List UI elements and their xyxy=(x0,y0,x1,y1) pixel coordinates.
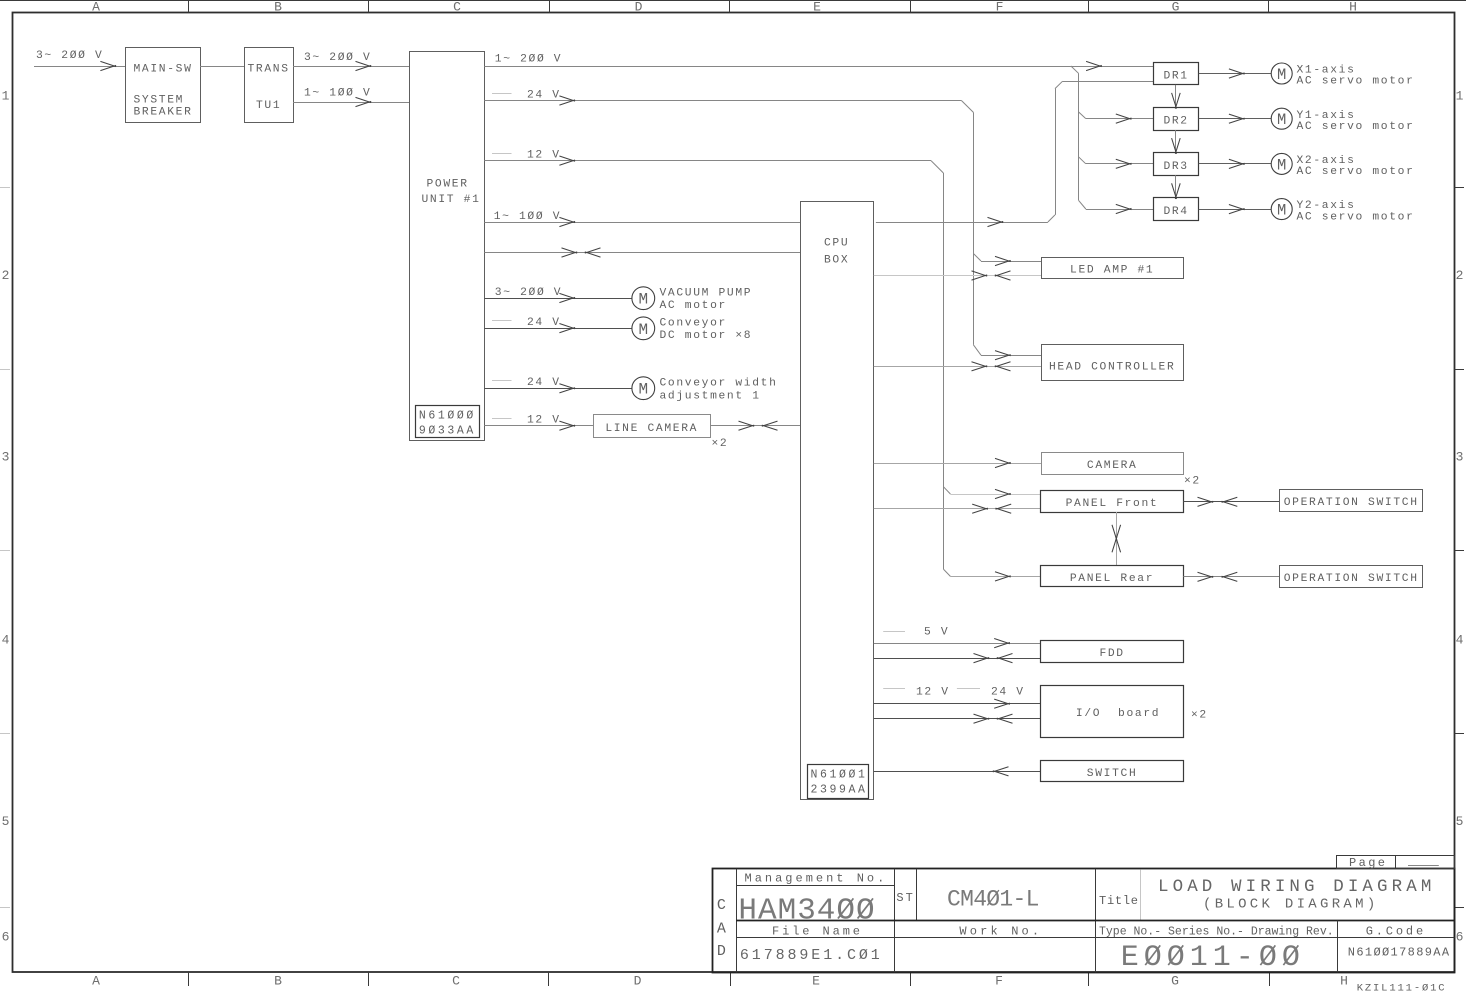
wire CPU to HEAD CONTROLLER bidirectional xyxy=(874,366,1041,368)
block PANEL Rear xyxy=(1041,566,1184,587)
svg-text:B: B xyxy=(274,0,282,15)
wire 1~200V to DR1 xyxy=(484,66,1153,68)
svg-text:PANEL Rear: PANEL Rear xyxy=(1070,573,1154,585)
svg-text:OPERATION SWITCH: OPERATION SWITCH xyxy=(1284,573,1419,585)
wire branch to DR4 xyxy=(1079,200,1086,209)
block SWITCH xyxy=(1041,761,1184,782)
svg-text:Management No.: Management No. xyxy=(745,871,888,885)
title block management header line xyxy=(736,885,895,887)
wire 100V trunk diagonal high xyxy=(1055,81,1063,88)
svg-text:6: 6 xyxy=(2,930,10,945)
label box N61001 2399AA xyxy=(808,765,869,799)
wire 24V to conveyor DC motor xyxy=(484,328,632,330)
title block ST cell xyxy=(894,869,896,973)
svg-text:CAMERA: CAMERA xyxy=(1087,460,1138,472)
motor M conveyor width xyxy=(632,377,655,400)
wire 12V trunk diagonal xyxy=(931,161,943,173)
svg-text:H: H xyxy=(1340,974,1348,989)
sheet top edge line xyxy=(0,0,1466,2)
row ticks right xyxy=(1455,187,1465,189)
svg-text:D: D xyxy=(635,0,643,15)
svg-text:×2: ×2 xyxy=(1184,476,1201,488)
motor M vacuum pump xyxy=(632,287,655,310)
svg-text:12 V: 12 V xyxy=(527,150,561,162)
wire branch to LED AMP top xyxy=(973,254,981,262)
title block CAD cell divider xyxy=(736,869,738,973)
svg-text:A: A xyxy=(717,921,726,938)
svg-text:617889E1.CØ1: 617889E1.CØ1 xyxy=(740,947,883,964)
wire DR3 chain down xyxy=(1175,175,1177,198)
svg-text:SYSTEM: SYSTEM xyxy=(134,95,185,107)
wire PANEL Front to OPERATION SWITCH bidirectional xyxy=(1183,501,1279,503)
wire 24V to trunk xyxy=(484,100,961,102)
column ticks top xyxy=(188,1,190,13)
svg-text:PANEL Front: PANEL Front xyxy=(1066,498,1159,510)
svg-text:4: 4 xyxy=(2,633,10,648)
wire 3~200V mains input xyxy=(34,66,125,68)
svg-text:E: E xyxy=(813,0,821,15)
wire branch to DR3 xyxy=(1079,157,1086,164)
svg-text:HAM34ØØ: HAM34ØØ xyxy=(738,894,875,929)
wire 1~100V to CPU BOX xyxy=(484,222,800,224)
wire 12V to LINE CAMERA xyxy=(484,425,593,427)
svg-text:MAIN-SW: MAIN-SW xyxy=(134,64,193,76)
motor M X2-axis AC servo xyxy=(1271,153,1292,174)
svg-text:B: B xyxy=(274,974,282,989)
svg-text:24 V: 24 V xyxy=(527,377,561,389)
wire PANEL Front to PANEL Rear bidirectional xyxy=(1116,512,1118,566)
svg-text:Work No.: Work No. xyxy=(959,924,1042,938)
svg-text:M: M xyxy=(1277,66,1286,84)
svg-text:×2: ×2 xyxy=(712,438,729,450)
svg-text:E: E xyxy=(812,974,820,989)
svg-text:M: M xyxy=(1277,202,1286,220)
svg-text:C: C xyxy=(717,897,726,914)
motor M X1-axis AC servo xyxy=(1271,63,1292,84)
wire MAIN-SW to TRANS xyxy=(200,66,244,68)
block PANEL Front xyxy=(1041,491,1184,513)
svg-text:N61ØØ1: N61ØØ1 xyxy=(811,769,868,782)
svg-text:M: M xyxy=(638,291,648,309)
svg-text:UNIT #1: UNIT #1 xyxy=(422,194,481,206)
svg-text:Type No.- Series No.- Drawing: Type No.- Series No.- Drawing Rev. xyxy=(1099,925,1334,938)
svg-text:AC servo motor: AC servo motor xyxy=(1297,121,1415,133)
svg-text:3~ 2ØØ V: 3~ 2ØØ V xyxy=(304,52,371,64)
wire 100V into DR1 xyxy=(1063,81,1154,83)
svg-text:VACUUM PUMP: VACUUM PUMP xyxy=(660,288,753,300)
block HEAD CONTROLLER xyxy=(1042,345,1184,381)
wire DR3 to motor xyxy=(1199,163,1272,165)
svg-text:9Ø33AA: 9Ø33AA xyxy=(419,424,476,437)
svg-text:5: 5 xyxy=(2,814,10,829)
block TRANS TU1 xyxy=(245,48,294,123)
title block row line xyxy=(736,920,1454,922)
svg-text:F: F xyxy=(995,974,1003,989)
svg-text:1: 1 xyxy=(1456,89,1464,104)
svg-text:5: 5 xyxy=(1456,814,1464,829)
wire 12V trunk vertical xyxy=(943,173,945,569)
column ticks bottom xyxy=(188,972,190,986)
block MAIN-SW SYSTEM BREAKER xyxy=(126,48,201,123)
wire POWER UNIT to CPU BOX bidirectional xyxy=(484,252,800,254)
block OPERATION SWITCH lower xyxy=(1280,566,1423,588)
svg-text:M: M xyxy=(638,381,648,399)
svg-text:×2: ×2 xyxy=(1191,709,1208,721)
label 12V 24V dashes xyxy=(883,688,905,690)
svg-text:24 V: 24 V xyxy=(527,317,561,329)
svg-text:FDD: FDD xyxy=(1099,648,1124,660)
wire 24V trunk diagonal xyxy=(961,101,973,113)
wire DR2 chain down xyxy=(1175,130,1177,153)
label 12V dash xyxy=(492,153,512,155)
motor M Y1-axis AC servo xyxy=(1271,108,1292,129)
svg-text:M: M xyxy=(638,321,648,339)
svg-text:G: G xyxy=(1171,974,1179,989)
wire CPU to LED AMP bidirectional xyxy=(874,275,1041,277)
wire CPU to FDD bidirectional xyxy=(874,658,1041,660)
svg-text:POWER: POWER xyxy=(427,179,469,191)
svg-text:HEAD CONTROLLER: HEAD CONTROLLER xyxy=(1049,361,1175,373)
block FDD xyxy=(1041,641,1184,663)
svg-text:BREAKER: BREAKER xyxy=(134,107,193,119)
wire DR trunk vertical xyxy=(1078,73,1080,200)
block POWER UNIT #1 xyxy=(410,52,485,441)
block CPU BOX xyxy=(801,202,874,800)
row ticks left xyxy=(0,187,10,189)
svg-text:LED AMP #1: LED AMP #1 xyxy=(1070,265,1154,277)
wire branch to PANEL Rear xyxy=(943,569,950,576)
wire PANEL Rear to OPERATION SWITCH bidirectional xyxy=(1183,576,1279,578)
svg-text:C: C xyxy=(453,0,461,15)
title block outer frame xyxy=(713,869,1455,973)
svg-text:N61ØØØ: N61ØØØ xyxy=(419,409,476,422)
title block title column divider xyxy=(1095,869,1097,973)
block DR1 xyxy=(1154,63,1199,85)
svg-text:M: M xyxy=(1277,156,1286,174)
svg-text:OPERATION SWITCH: OPERATION SWITCH xyxy=(1284,497,1419,509)
svg-text:DR1: DR1 xyxy=(1163,70,1188,82)
svg-text:D: D xyxy=(634,974,642,989)
block CAMERA xyxy=(1042,453,1184,475)
svg-text:LINE CAMERA: LINE CAMERA xyxy=(605,423,698,435)
svg-text:1: 1 xyxy=(2,89,10,104)
wire DR2 to motor xyxy=(1199,118,1272,120)
svg-text:G.Code: G.Code xyxy=(1366,924,1426,938)
svg-text:TU1: TU1 xyxy=(256,100,281,112)
svg-text:12 V: 12 V xyxy=(916,687,950,699)
wire branch diagonal to DR trunk xyxy=(1071,66,1079,73)
svg-text:CM4Ø1-L: CM4Ø1-L xyxy=(947,887,1039,913)
svg-text:4: 4 xyxy=(1456,633,1464,648)
svg-text:M: M xyxy=(1277,111,1286,129)
svg-text:(BLOCK DIAGRAM): (BLOCK DIAGRAM) xyxy=(1203,896,1379,912)
svg-text:I/O board: I/O board xyxy=(1076,708,1160,720)
label 24V dash xyxy=(492,93,512,95)
wire LINE CAMERA to CPU bidirectional xyxy=(710,425,800,427)
svg-text:AC motor: AC motor xyxy=(660,300,727,312)
wire 24V to conveyor width motor xyxy=(484,388,632,390)
svg-text:N61ØØ17889AA: N61ØØ17889AA xyxy=(1348,945,1451,959)
wire TRANS to POWER UNIT 1~100V xyxy=(293,102,410,104)
svg-text:3: 3 xyxy=(1456,450,1464,465)
svg-text:6: 6 xyxy=(1456,930,1464,945)
svg-text:EØØ11-ØØ: EØØ11-ØØ xyxy=(1121,941,1305,975)
svg-text:DC motor ×8: DC motor ×8 xyxy=(660,330,753,342)
title block page box xyxy=(1337,856,1455,869)
svg-text:AC servo motor: AC servo motor xyxy=(1297,166,1415,178)
svg-text:G: G xyxy=(1172,0,1180,15)
svg-text:ST: ST xyxy=(896,891,914,905)
wire branch to DR2 xyxy=(1079,112,1086,119)
block DR2 xyxy=(1154,108,1199,131)
block LED AMP #1 xyxy=(1042,258,1184,279)
wire CPU to I/O board supply xyxy=(874,703,1041,705)
svg-text:Title: Title xyxy=(1099,894,1139,908)
wire CPU to PANEL Front bidirectional xyxy=(874,508,1041,510)
svg-text:3~ 2ØØ V: 3~ 2ØØ V xyxy=(36,50,103,62)
wire SWITCH to CPU xyxy=(874,771,1041,773)
svg-text:24 V: 24 V xyxy=(527,90,561,102)
wire branch to HEAD CONTROLLER top xyxy=(973,345,981,355)
svg-text:H: H xyxy=(1349,0,1357,15)
wire branch to PANEL Front top xyxy=(943,487,950,494)
wire DR4 to motor xyxy=(1199,209,1272,211)
wire CPU to CAMERA xyxy=(874,463,1041,465)
svg-text:CPU: CPU xyxy=(824,238,849,250)
block DR4 xyxy=(1154,198,1199,221)
svg-text:1~ 1ØØ V: 1~ 1ØØ V xyxy=(494,211,561,223)
svg-text:LOAD WIRING DIAGRAM: LOAD WIRING DIAGRAM xyxy=(1158,877,1435,897)
motor M Y2-axis AC servo xyxy=(1271,199,1292,220)
title block G.Code divider xyxy=(1337,920,1339,972)
svg-text:3~ 2ØØ V: 3~ 2ØØ V xyxy=(495,287,562,299)
svg-text:adjustment 1: adjustment 1 xyxy=(660,390,761,402)
svg-text:DR3: DR3 xyxy=(1163,161,1188,173)
svg-text:File Name: File Name xyxy=(772,924,863,938)
svg-text:1~ 1ØØ V: 1~ 1ØØ V xyxy=(304,88,371,100)
svg-text:DR4: DR4 xyxy=(1163,206,1188,218)
svg-text:AC servo motor: AC servo motor xyxy=(1297,76,1415,88)
svg-text:DR2: DR2 xyxy=(1163,116,1188,128)
svg-text:Page: Page xyxy=(1349,856,1387,870)
svg-text:24 V: 24 V xyxy=(991,687,1025,699)
wire 12V to trunk xyxy=(484,160,931,162)
svg-text:3: 3 xyxy=(2,450,10,465)
svg-text:5 V: 5 V xyxy=(924,627,949,639)
svg-text:Conveyor: Conveyor xyxy=(660,318,727,330)
label 5V dash xyxy=(883,631,905,633)
svg-text:D: D xyxy=(717,943,726,960)
svg-text:2399AA: 2399AA xyxy=(811,784,868,797)
svg-text:12 V: 12 V xyxy=(527,414,561,426)
wire 24V trunk vertical xyxy=(973,112,975,344)
svg-text:TRANS: TRANS xyxy=(248,64,290,76)
svg-text:C: C xyxy=(452,974,460,989)
wire 1~100V CPU to DR1 trunk xyxy=(876,222,1048,224)
wire 100V trunk diagonal low xyxy=(1048,215,1055,222)
svg-text:Conveyor width: Conveyor width xyxy=(660,378,778,390)
label box N61000 9033AA xyxy=(416,406,480,438)
wire DR1 chain down xyxy=(1175,85,1177,108)
svg-text:A: A xyxy=(92,0,100,15)
title block header underline xyxy=(736,937,1454,939)
svg-text:F: F xyxy=(996,0,1004,15)
wire CPU to I/O board bidirectional xyxy=(874,718,1041,720)
svg-text:A: A xyxy=(92,974,100,989)
block I/O board xyxy=(1041,686,1184,738)
wire CPU to FDD supply xyxy=(874,643,1041,645)
motor M conveyor xyxy=(632,317,655,340)
wire DR1 to motor xyxy=(1199,73,1272,75)
block DR3 xyxy=(1154,153,1199,176)
title label divider stub xyxy=(1140,870,1142,920)
svg-text:AC servo motor: AC servo motor xyxy=(1297,211,1415,223)
svg-text:KZIL111-Ø1C: KZIL111-Ø1C xyxy=(1357,983,1447,992)
block OPERATION SWITCH upper xyxy=(1280,490,1423,512)
wire TRANS to POWER UNIT 3~200V xyxy=(293,66,410,68)
wire 100V trunk vertical xyxy=(1055,89,1057,215)
svg-text:2: 2 xyxy=(2,268,10,283)
svg-text:1~ 2ØØ V: 1~ 2ØØ V xyxy=(495,54,562,66)
wire 3~200V to vacuum pump motor xyxy=(484,298,632,300)
page number dash xyxy=(1408,865,1439,867)
svg-text:SWITCH: SWITCH xyxy=(1087,768,1138,780)
svg-text:2: 2 xyxy=(1456,268,1464,283)
block LINE CAMERA xyxy=(594,415,711,438)
svg-text:BOX: BOX xyxy=(824,255,849,267)
